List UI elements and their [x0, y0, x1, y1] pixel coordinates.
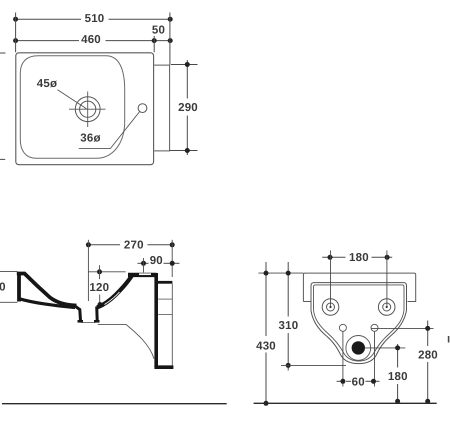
pedestal shroud top line [98, 323, 126, 325]
dimension 120 vertical line [99, 265, 101, 308]
dimension 90 dots [141, 261, 175, 266]
tap circle left (back) [339, 324, 346, 331]
dimension 290 vertical line [186, 60, 188, 155]
hole leader dot left [329, 306, 331, 308]
svg-text:36ø: 36ø [80, 133, 100, 145]
drain right foot [94, 320, 100, 323]
drain bottom thin line [81, 322, 96, 324]
ledge top bar (side) [158, 281, 173, 284]
svg-text:430: 430 [256, 341, 276, 353]
dimension 510 line [16, 18, 171, 20]
left cut-off extension tick (top) [0, 52, 6, 54]
cut-off left dimension line top [0, 271, 17, 273]
tap hole crosshair [69, 92, 106, 128]
right edge cut-off text fragment [448, 336, 450, 343]
cut-off left dimension line bottom [0, 301, 17, 303]
drain left flare and wall [74, 305, 81, 321]
bracket outer contour [311, 283, 407, 364]
svg-text:45ø: 45ø [37, 78, 57, 90]
svg-text:90: 90 [150, 255, 163, 267]
dimension 270 line [88, 244, 172, 246]
basin bottom bar (side) [154, 365, 173, 369]
basin top bar (side) [128, 273, 157, 277]
dimension 310 vertical line [287, 262, 289, 371]
dimension 60 dots [340, 379, 376, 384]
top reference line [259, 272, 304, 274]
basin profile underside [20, 299, 76, 308]
dimension 310 dots [286, 271, 291, 368]
tap extension line left (60) [342, 332, 344, 387]
basin back vertical (side) [154, 273, 158, 367]
basin outer outline (plan) [16, 53, 154, 165]
floor line (back view) [254, 402, 437, 404]
basin top bar white notch [139, 273, 151, 275]
dimension 510 dots [13, 17, 173, 22]
bracket inner contour [314, 285, 405, 361]
rim level reference line [88, 271, 125, 273]
bracket column division 2 [158, 314, 172, 316]
svg-text:460: 460 [81, 34, 101, 46]
bracket bottom reference line [281, 364, 346, 366]
dimension 60 line [337, 380, 380, 382]
svg-text:310: 310 [279, 320, 299, 332]
left cut-off extension tick (bottom) [0, 158, 5, 160]
svg-text:180: 180 [349, 252, 369, 264]
tap level reference line (280 top) [371, 327, 434, 329]
wall face vertical thin line [171, 284, 173, 366]
svg-text:270: 270 [124, 239, 144, 251]
drain left foot [78, 320, 84, 323]
svg-text:280: 280 [418, 349, 438, 361]
shelf outer outline (back) [303, 273, 415, 301]
extension line x=172.2 (wall face top) [171, 240, 173, 277]
45ø leader line [58, 90, 87, 109]
dimension 280 dots [425, 326, 430, 404]
36ø leader line [79, 112, 140, 149]
dimension 90 line [138, 262, 180, 264]
hole extension line left [330, 250, 332, 307]
svg-text:290: 290 [178, 102, 198, 114]
dimension 460 line [16, 40, 171, 42]
dimension 180 right vertical line [397, 344, 399, 401]
svg-text:60: 60 [352, 376, 365, 388]
dimension 290 dots [185, 62, 190, 153]
extension line left (x=15.6) [15, 13, 17, 53]
basin inner rim outline (plan) [20, 56, 124, 159]
drain ring (back) [346, 336, 371, 361]
extension tick x=144.4 [143, 258, 145, 273]
bowl back wall highlight [105, 292, 120, 305]
mounting hole right [378, 299, 395, 316]
svg-text:180: 180 [388, 371, 408, 383]
dimension 180 right dots [395, 345, 400, 403]
svg-text:0: 0 [0, 281, 6, 293]
floor line (left view) [2, 403, 227, 405]
dimension 430 vertical line [265, 262, 267, 403]
pedestal shroud arc [126, 324, 154, 358]
basin profile top rim and bowl interior curve [17, 274, 77, 306]
mounting hole left [322, 299, 339, 316]
tap circle right (back) [371, 324, 378, 331]
basin profile front face [17, 272, 21, 302]
tap hole 45ø circles [75, 97, 100, 122]
extension line x=88.4 (drain axis) [87, 240, 89, 301]
dimension 460 dots [13, 38, 173, 43]
tap extension line right (60) [374, 332, 376, 387]
shelf extension (plan, right) [154, 65, 169, 151]
svg-text:120: 120 [89, 282, 109, 294]
drain right wall [95, 307, 99, 321]
dimension 270 dots [86, 242, 175, 247]
overflow hole (plan small circle) [138, 104, 147, 113]
dimension 430 dots [264, 271, 269, 406]
bracket column division 1 [158, 298, 172, 300]
drain hole (back) [352, 341, 365, 354]
svg-text:510: 510 [85, 13, 105, 25]
dimension 290 extension bottom [170, 150, 198, 152]
bowl back wall curve [97, 275, 133, 308]
extension line x=169.9 [169, 13, 171, 66]
dimension 120 top dot [97, 269, 102, 274]
dimension 290 extension top [171, 64, 198, 66]
dimension 180 top line [322, 256, 392, 258]
svg-text:50: 50 [152, 24, 165, 36]
hole extension line right [386, 250, 388, 307]
hole leader dot right [386, 306, 388, 308]
drain level reference line (180 top) [365, 347, 405, 349]
dimension 280 vertical line [427, 321, 429, 402]
dimension 120 bottom dot [98, 302, 103, 307]
dimension 180 top dots [328, 255, 390, 260]
extension line x=154.2 [153, 36, 155, 52]
